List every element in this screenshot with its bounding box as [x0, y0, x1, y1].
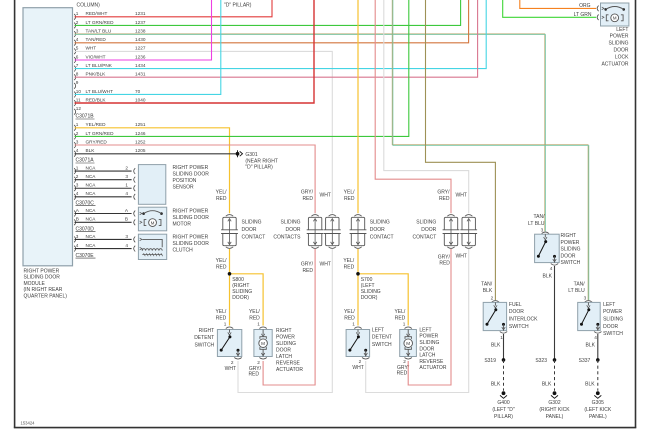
module pin 1 RED/WHT 1231 — [74, 11, 146, 20]
svg-text:SLIDING: SLIDING — [242, 219, 262, 225]
svg-text:LEFT: LEFT — [603, 302, 615, 308]
splice S700 — [356, 272, 360, 276]
module pin 7 LT BLU/PNK 1434 — [74, 63, 146, 72]
label YEL/RED pin 1 left actuator — [394, 309, 405, 326]
svg-text:WHT: WHT — [225, 366, 236, 372]
svg-text:RED: RED — [302, 268, 313, 274]
svg-text:GRY/: GRY/ — [301, 190, 314, 196]
ground G400 label — [492, 400, 515, 420]
svg-text:BLK: BLK — [543, 274, 553, 280]
svg-text:G302: G302 — [548, 400, 560, 406]
svg-text:1252: 1252 — [135, 140, 146, 145]
svg-text:CONTACT: CONTACT — [413, 235, 437, 241]
left detent switch S2 box — [346, 327, 370, 359]
svg-text:ACTUATOR: ACTUATOR — [601, 61, 628, 67]
svg-text:4: 4 — [76, 148, 79, 153]
svg-text:DOOR): DOOR) — [361, 295, 378, 301]
svg-text:TAN/: TAN/ — [574, 282, 586, 288]
label pin 1 BLK fuel door switch — [491, 335, 503, 349]
wire YEL/RED 1251 (to sliding door contact and S800) — [75, 128, 230, 213]
wire NCA sensor pin 4-4 — [74, 191, 135, 200]
svg-text:LT GRN/RED: LT GRN/RED — [86, 131, 115, 136]
svg-text:WHT: WHT — [86, 46, 97, 51]
wire GRY/RED right actuator pin 2 to right contact — [263, 249, 315, 385]
wire PNK/BLK 1431 (pin 8, to top) — [75, 0, 478, 77]
svg-text:4: 4 — [76, 243, 79, 248]
svg-text:INTERLOCK: INTERLOCK — [509, 317, 538, 323]
svg-text:LT GRN/RED: LT GRN/RED — [86, 20, 115, 25]
position sensor label — [173, 165, 210, 191]
svg-text:1: 1 — [257, 321, 260, 326]
svg-text:YEL/: YEL/ — [394, 309, 405, 315]
svg-text:RED: RED — [439, 261, 450, 267]
svg-text:SLIDING: SLIDING — [561, 247, 581, 253]
ground G301 label — [245, 152, 278, 171]
svg-text:RIGHT POWER: RIGHT POWER — [24, 269, 60, 275]
label YEL/RED pin 1 right actuator — [249, 309, 260, 326]
svg-text:PANEL): PANEL) — [546, 414, 564, 420]
wire BLK fuel door switch pin 1 to S319 — [503, 334, 505, 360]
ground G305 label — [584, 400, 612, 420]
svg-text:9: 9 — [76, 80, 79, 85]
label pin 4 BLK left switch — [586, 335, 598, 349]
svg-text:DOOR: DOOR — [603, 324, 618, 330]
svg-text:REVERSE: REVERSE — [276, 361, 301, 367]
svg-text:DOOR: DOOR — [286, 227, 301, 233]
svg-text:2: 2 — [76, 20, 79, 25]
wire TAN/LT BLU 1238 (pin 3, to right power sliding door switch) — [75, 34, 546, 231]
svg-text:SWITCH: SWITCH — [603, 331, 623, 337]
svg-text:RED: RED — [344, 196, 355, 202]
svg-text:SLIDING DOOR: SLIDING DOOR — [24, 275, 61, 281]
connector label C3071B — [76, 114, 95, 120]
svg-text:(RIGHT KICK: (RIGHT KICK — [539, 407, 570, 413]
svg-text:NCA: NCA — [86, 183, 97, 188]
right power sliding door motor M1 box — [138, 207, 166, 231]
sliding door contacts (left pair GRY/RED + WHT) — [443, 215, 478, 249]
wire WHT left detent pin 2 to left contact — [366, 249, 469, 393]
label TAN/BLK fuel door switch — [481, 282, 493, 295]
svg-text:POWER: POWER — [603, 309, 622, 315]
svg-text:3: 3 — [76, 28, 79, 33]
left detent switch label — [372, 327, 392, 347]
position sensor box — [138, 165, 165, 205]
svg-text:DOOR: DOOR — [421, 227, 436, 233]
svg-text:DOOR: DOOR — [614, 48, 629, 54]
svg-text:TAN/LT BLU: TAN/LT BLU — [86, 28, 112, 33]
svg-text:M: M — [261, 341, 265, 346]
svg-text:POWER: POWER — [419, 334, 438, 340]
svg-text:NCA: NCA — [86, 191, 97, 196]
svg-text:CLUTCH: CLUTCH — [173, 248, 194, 254]
svg-text:G301: G301 — [245, 152, 257, 158]
svg-text:1251: 1251 — [135, 122, 146, 127]
svg-text:LATCH: LATCH — [419, 353, 435, 359]
module pin 4 TAN/RED 1430 — [74, 37, 146, 46]
svg-text:DOOR: DOOR — [276, 348, 291, 354]
svg-text:SWITCH: SWITCH — [561, 260, 581, 266]
svg-text:4: 4 — [125, 191, 128, 196]
svg-text:1236: 1236 — [135, 54, 146, 59]
label YEL/RED below right contact — [216, 258, 227, 270]
wire LT BLU/WHT 70 (pin 10, to top) — [75, 0, 221, 94]
svg-text:TAN/: TAN/ — [533, 214, 545, 220]
wire YEL/RED from top (to S700) — [357, 0, 359, 213]
svg-text:1431: 1431 — [135, 72, 146, 77]
svg-text:70: 70 — [135, 89, 141, 94]
svg-text:SLIDING DOOR: SLIDING DOOR — [173, 215, 210, 221]
svg-text:NCA: NCA — [86, 217, 97, 222]
svg-text:3: 3 — [584, 295, 587, 300]
svg-text:DETENT: DETENT — [372, 335, 392, 341]
svg-text:11: 11 — [76, 98, 81, 103]
svg-text:YEL/: YEL/ — [216, 258, 227, 264]
svg-text:1: 1 — [352, 321, 355, 326]
label YEL/RED below left contact — [343, 258, 354, 270]
svg-text:COLUMN): COLUMN) — [77, 2, 101, 8]
svg-text:ACTUATOR: ACTUATOR — [419, 365, 446, 371]
svg-text:WHT: WHT — [456, 253, 467, 259]
svg-text:GRY/: GRY/ — [437, 190, 450, 196]
left power sliding door switch label — [603, 302, 623, 337]
svg-text:POWER: POWER — [276, 335, 295, 341]
label YEL/RED pin 1 left detent switch — [344, 309, 355, 326]
svg-text:RED: RED — [344, 264, 355, 270]
wire BLK dashed S337 to G305 — [585, 360, 598, 391]
svg-text:RED: RED — [344, 315, 355, 321]
label GRY/RED + WHT above left pair — [437, 190, 467, 202]
svg-text:3: 3 — [76, 140, 79, 145]
svg-text:1: 1 — [224, 321, 227, 326]
label sliding door contact left pair — [413, 219, 437, 240]
label sliding door contact left — [370, 219, 394, 240]
svg-text:LEFT: LEFT — [372, 327, 384, 333]
svg-text:GRY/: GRY/ — [301, 262, 314, 268]
svg-text:YEL/: YEL/ — [343, 258, 354, 264]
svg-text:1430: 1430 — [135, 37, 146, 42]
door motor label — [173, 209, 210, 228]
sliding door contacts (right pair GRY/RED + WHT) — [307, 215, 341, 249]
right power sliding door switch label — [561, 233, 581, 266]
svg-text:BLK: BLK — [483, 288, 493, 294]
ground G400 — [500, 391, 507, 398]
label GRY/RED + WHT above right pair — [301, 190, 331, 202]
fuel door interlock switch label — [509, 302, 538, 330]
svg-text:YEL/: YEL/ — [344, 309, 355, 315]
svg-text:BLK: BLK — [586, 343, 596, 349]
svg-text:8: 8 — [76, 72, 79, 77]
svg-text:RED: RED — [216, 264, 227, 270]
wire NCA motor pin B — [74, 217, 135, 226]
module pin C3071B-1 YEL/RED 1251 — [74, 122, 146, 131]
ground G305 — [594, 391, 601, 398]
label YEL/RED pin 1 right detent switch — [215, 309, 226, 326]
wire WHT right detent pin 2 to right contact — [238, 249, 332, 393]
wire TAN/BLK from top (to fuel door interlock switch) — [426, 0, 496, 300]
label sliding door contacts right pair — [273, 219, 301, 240]
svg-text:SLIDING: SLIDING — [416, 219, 436, 225]
svg-text:RIGHT: RIGHT — [561, 233, 577, 239]
module pin 2 LT GRN/RED 1237 — [74, 20, 146, 29]
svg-text:NCA: NCA — [86, 208, 97, 213]
svg-text:RIGHT: RIGHT — [199, 328, 215, 334]
svg-text:WHT: WHT — [320, 262, 331, 268]
label pin 2 GRY/RED right actuator — [248, 360, 261, 378]
svg-text:SLIDING DOOR: SLIDING DOOR — [173, 241, 210, 247]
module pin 6 VIO/WHT 1236 — [74, 54, 146, 63]
svg-text:1205: 1205 — [135, 148, 146, 153]
wire LT GRN/RED 1237 (pin 2, to top) — [75, 0, 461, 25]
svg-text:"D" PILLAR): "D" PILLAR) — [245, 165, 273, 171]
wire WHT 1227 (pin 5, to sliding door contact) — [75, 51, 333, 213]
label YEL/RED above right contact — [216, 190, 227, 202]
svg-text:SWITCH: SWITCH — [372, 342, 392, 348]
svg-text:DOOR: DOOR — [419, 346, 434, 352]
svg-text:12: 12 — [76, 106, 82, 111]
svg-text:RIGHT POWER: RIGHT POWER — [173, 165, 209, 171]
svg-text:4: 4 — [76, 37, 79, 42]
svg-text:3: 3 — [76, 234, 79, 239]
svg-text:2: 2 — [231, 360, 234, 365]
svg-text:TAN/: TAN/ — [481, 282, 493, 288]
svg-text:RED: RED — [397, 370, 408, 376]
label pin 4 BLK right switch — [543, 266, 553, 280]
svg-text:DOOR): DOOR) — [232, 295, 249, 301]
wire RED/WHT 1231 (pin 1, to top) — [75, 0, 273, 17]
svg-text:SLIDING DOOR: SLIDING DOOR — [173, 171, 210, 177]
svg-text:SLIDING: SLIDING — [280, 219, 300, 225]
wire NCA sensor pin 3-1 — [74, 183, 135, 192]
svg-text:1040: 1040 — [135, 98, 146, 103]
svg-text:LT BLU/WHT: LT BLU/WHT — [86, 89, 114, 94]
wire LT GRN from top (to left power sliding door lock actuator) — [503, 0, 597, 17]
wire BLK left switch pin 4 to S337 — [597, 334, 599, 360]
svg-text:2: 2 — [359, 359, 362, 364]
svg-text:1: 1 — [76, 166, 79, 171]
svg-text:NCA: NCA — [86, 174, 97, 179]
ground G302 — [551, 391, 558, 398]
svg-text:M: M — [613, 16, 617, 21]
svg-text:RED: RED — [216, 315, 227, 321]
svg-text:7: 7 — [76, 63, 79, 68]
label GRY/RED + WHT below right pair — [301, 262, 331, 274]
svg-text:S337: S337 — [579, 358, 591, 364]
svg-text:RIGHT: RIGHT — [276, 328, 292, 334]
svg-text:WHT: WHT — [456, 193, 467, 199]
svg-text:BLK: BLK — [86, 148, 96, 153]
svg-text:SWITCH: SWITCH — [509, 324, 529, 330]
svg-text:4: 4 — [594, 335, 597, 340]
svg-text:3: 3 — [125, 174, 128, 179]
svg-text:4: 4 — [125, 243, 128, 248]
svg-text:M: M — [151, 220, 155, 225]
svg-text:2: 2 — [257, 360, 260, 365]
svg-text:5: 5 — [76, 46, 79, 51]
svg-text:RED/WHT: RED/WHT — [86, 11, 108, 16]
svg-text:RED: RED — [302, 196, 313, 202]
svg-text:TAN/RED: TAN/RED — [86, 37, 107, 42]
svg-text:BLK: BLK — [542, 382, 552, 388]
svg-text:SENSOR: SENSOR — [173, 184, 195, 190]
svg-text:YEL/: YEL/ — [215, 309, 226, 315]
svg-text:1: 1 — [125, 183, 128, 188]
sliding door contact (left, YEL/RED) — [350, 215, 367, 249]
module pin 11 RED/BLK 1040 — [74, 98, 146, 107]
svg-text:DOOR: DOOR — [370, 227, 385, 233]
svg-text:2: 2 — [76, 174, 79, 179]
sliding door contact (right, YEL/RED) — [221, 215, 238, 249]
svg-text:LATCH: LATCH — [276, 354, 292, 360]
wire GRY/RED left actuator pin 2 to left contact — [408, 249, 451, 385]
svg-text:RIGHT POWER: RIGHT POWER — [173, 209, 209, 215]
wire RED/BLK 1040 (pin 11, to top) — [75, 0, 315, 103]
right power sliding door clutch L1 box — [138, 234, 166, 259]
svg-text:VIO/WHT: VIO/WHT — [86, 54, 106, 59]
svg-text:PNK/BLK: PNK/BLK — [86, 72, 107, 77]
svg-text:10: 10 — [76, 89, 82, 94]
svg-text:SLIDING: SLIDING — [419, 340, 439, 346]
svg-text:6: 6 — [76, 54, 79, 59]
svg-text:S319: S319 — [484, 358, 496, 364]
svg-text:3: 3 — [125, 234, 128, 239]
svg-text:ACTUATOR: ACTUATOR — [276, 367, 303, 373]
wire YEL/RED below left contact to S700 and left detent switch — [358, 249, 408, 326]
svg-text:DOOR: DOOR — [509, 309, 524, 315]
wire LT GRN/RED 1246 (to top) — [75, 0, 409, 136]
svg-text:1: 1 — [403, 321, 406, 326]
splice S700 label — [361, 277, 381, 301]
left power sliding door latch reverse actuator M3 box — [400, 327, 417, 359]
module pin 10 LT BLU/WHT 70 — [74, 89, 140, 98]
svg-text:2: 2 — [125, 166, 128, 171]
svg-text:(LEFT "D": (LEFT "D" — [492, 407, 515, 413]
right latch reverse actuator label — [276, 328, 303, 373]
svg-text:B: B — [76, 217, 79, 222]
svg-text:CONTACT: CONTACT — [370, 235, 394, 241]
module pin C3071B-3 GRY/RED 1252 — [74, 140, 146, 149]
svg-text:G305: G305 — [592, 400, 604, 406]
svg-text:RED: RED — [439, 196, 450, 202]
right power sliding door module U1 box — [23, 8, 73, 266]
svg-text:MOTOR: MOTOR — [173, 222, 192, 228]
splice S337 — [579, 358, 600, 364]
svg-text:1238: 1238 — [135, 28, 146, 33]
svg-text:MODULE: MODULE — [24, 281, 46, 287]
label TAN/LT BLU right switch — [528, 214, 545, 227]
module pin 12 — [74, 106, 81, 115]
svg-text:DOOR: DOOR — [242, 227, 257, 233]
svg-text:G400: G400 — [497, 400, 509, 406]
svg-text:DETENT: DETENT — [194, 335, 214, 341]
left power sliding door switch S5 box — [578, 301, 602, 334]
splice S800 label — [232, 277, 252, 301]
module pin 5 WHT 1227 — [74, 46, 146, 55]
svg-text:(NEAR RIGHT: (NEAR RIGHT — [245, 158, 278, 164]
svg-text:WHT: WHT — [320, 193, 331, 199]
svg-text:YEL/RED: YEL/RED — [86, 122, 107, 127]
wire YEL/RED below right contact to S800 and right detent switch — [230, 249, 264, 326]
svg-text:POWER: POWER — [610, 34, 629, 40]
wire LT BLU/PNK 1434 (pin 7, to top) — [75, 0, 487, 69]
right detent switch S1 box — [217, 327, 241, 359]
module pin C3071B-4 BLK 1205 — [74, 148, 146, 157]
wire VIO/WHT 1236 (pin 6, to top) — [75, 0, 212, 60]
svg-text:S323: S323 — [535, 358, 547, 364]
svg-text:NCA: NCA — [86, 166, 97, 171]
svg-text:FUEL: FUEL — [509, 302, 522, 308]
svg-text:1434: 1434 — [135, 63, 146, 68]
wire BLK 1205 (to ground G301) — [75, 153, 236, 155]
connector label C3070E — [76, 253, 96, 259]
svg-text:1: 1 — [76, 11, 79, 16]
lock actuator label — [601, 27, 629, 68]
wire GRY/RED from top (to left sliding door contacts) — [375, 0, 451, 213]
wire NCA sensor pin 2-3 — [74, 174, 135, 183]
right power sliding door latch reverse actuator M2 box — [254, 327, 272, 359]
wire TAN/LT BLU from top (to left power sliding door switch) — [392, 0, 589, 300]
splice S323 — [535, 358, 556, 364]
svg-text:LOCK: LOCK — [615, 54, 629, 60]
svg-text:CONTACTS: CONTACTS — [273, 235, 301, 241]
svg-text:GRY/: GRY/ — [438, 254, 451, 260]
svg-text:1: 1 — [500, 335, 503, 340]
label pin 2 WHT right detent — [225, 360, 236, 372]
svg-text:1237: 1237 — [135, 20, 146, 25]
svg-text:RED/BLK: RED/BLK — [86, 98, 107, 103]
module pin C3071B-2 LT GRN/RED 1246 — [74, 131, 146, 140]
svg-text:BLK: BLK — [491, 343, 501, 349]
svg-text:SWITCH: SWITCH — [194, 342, 214, 348]
wire NCA sensor pin 1-2 — [74, 166, 135, 175]
wire ORG from top (to left power sliding door lock actuator) — [520, 0, 596, 8]
svg-text:B: B — [125, 217, 128, 222]
svg-text:1246: 1246 — [135, 131, 146, 136]
left power sliding door lock actuator M4 box — [597, 3, 629, 26]
svg-text:RED: RED — [395, 315, 406, 321]
ground G301 — [236, 150, 243, 157]
svg-text:SLIDING: SLIDING — [603, 317, 623, 323]
svg-text:QUARTER PANEL): QUARTER PANEL) — [24, 293, 68, 299]
door clutch label — [173, 235, 210, 254]
connector label C3070D — [76, 226, 96, 232]
svg-text:2: 2 — [76, 131, 79, 136]
svg-text:SLIDING: SLIDING — [608, 41, 628, 47]
svg-text:LT BLU/PNK: LT BLU/PNK — [86, 63, 113, 68]
label pin 2 GRY/RED left actuator — [397, 359, 410, 376]
module pin 8 PNK/BLK 1431 — [74, 72, 146, 81]
label TAN/LT BLU left switch — [568, 282, 585, 295]
svg-text:(IN RIGHT REAR: (IN RIGHT REAR — [24, 287, 63, 293]
connector label C3070C — [76, 200, 96, 206]
wire NCA clutch pin 4 — [74, 243, 135, 252]
svg-text:4: 4 — [76, 191, 79, 196]
svg-text:WHT: WHT — [352, 365, 363, 371]
svg-text:PANEL): PANEL) — [589, 414, 607, 420]
svg-text:DOOR: DOOR — [561, 253, 576, 259]
svg-text:M: M — [406, 341, 410, 346]
wire BLK right switch pin 4 to S323 — [554, 266, 556, 360]
splice S319 — [484, 358, 505, 364]
svg-text:YEL/: YEL/ — [249, 309, 260, 315]
svg-text:"D" PILLAR): "D" PILLAR) — [224, 2, 252, 8]
svg-text:3: 3 — [541, 227, 544, 232]
wire TAN/RED 1430 (pin 4, to top) — [75, 0, 469, 43]
wire WHT from top (to left sliding door contacts) — [384, 0, 469, 213]
splice S800 — [228, 272, 232, 276]
svg-text:POSITION: POSITION — [173, 178, 197, 184]
svg-text:153424: 153424 — [21, 420, 36, 425]
svg-text:3: 3 — [76, 183, 79, 188]
